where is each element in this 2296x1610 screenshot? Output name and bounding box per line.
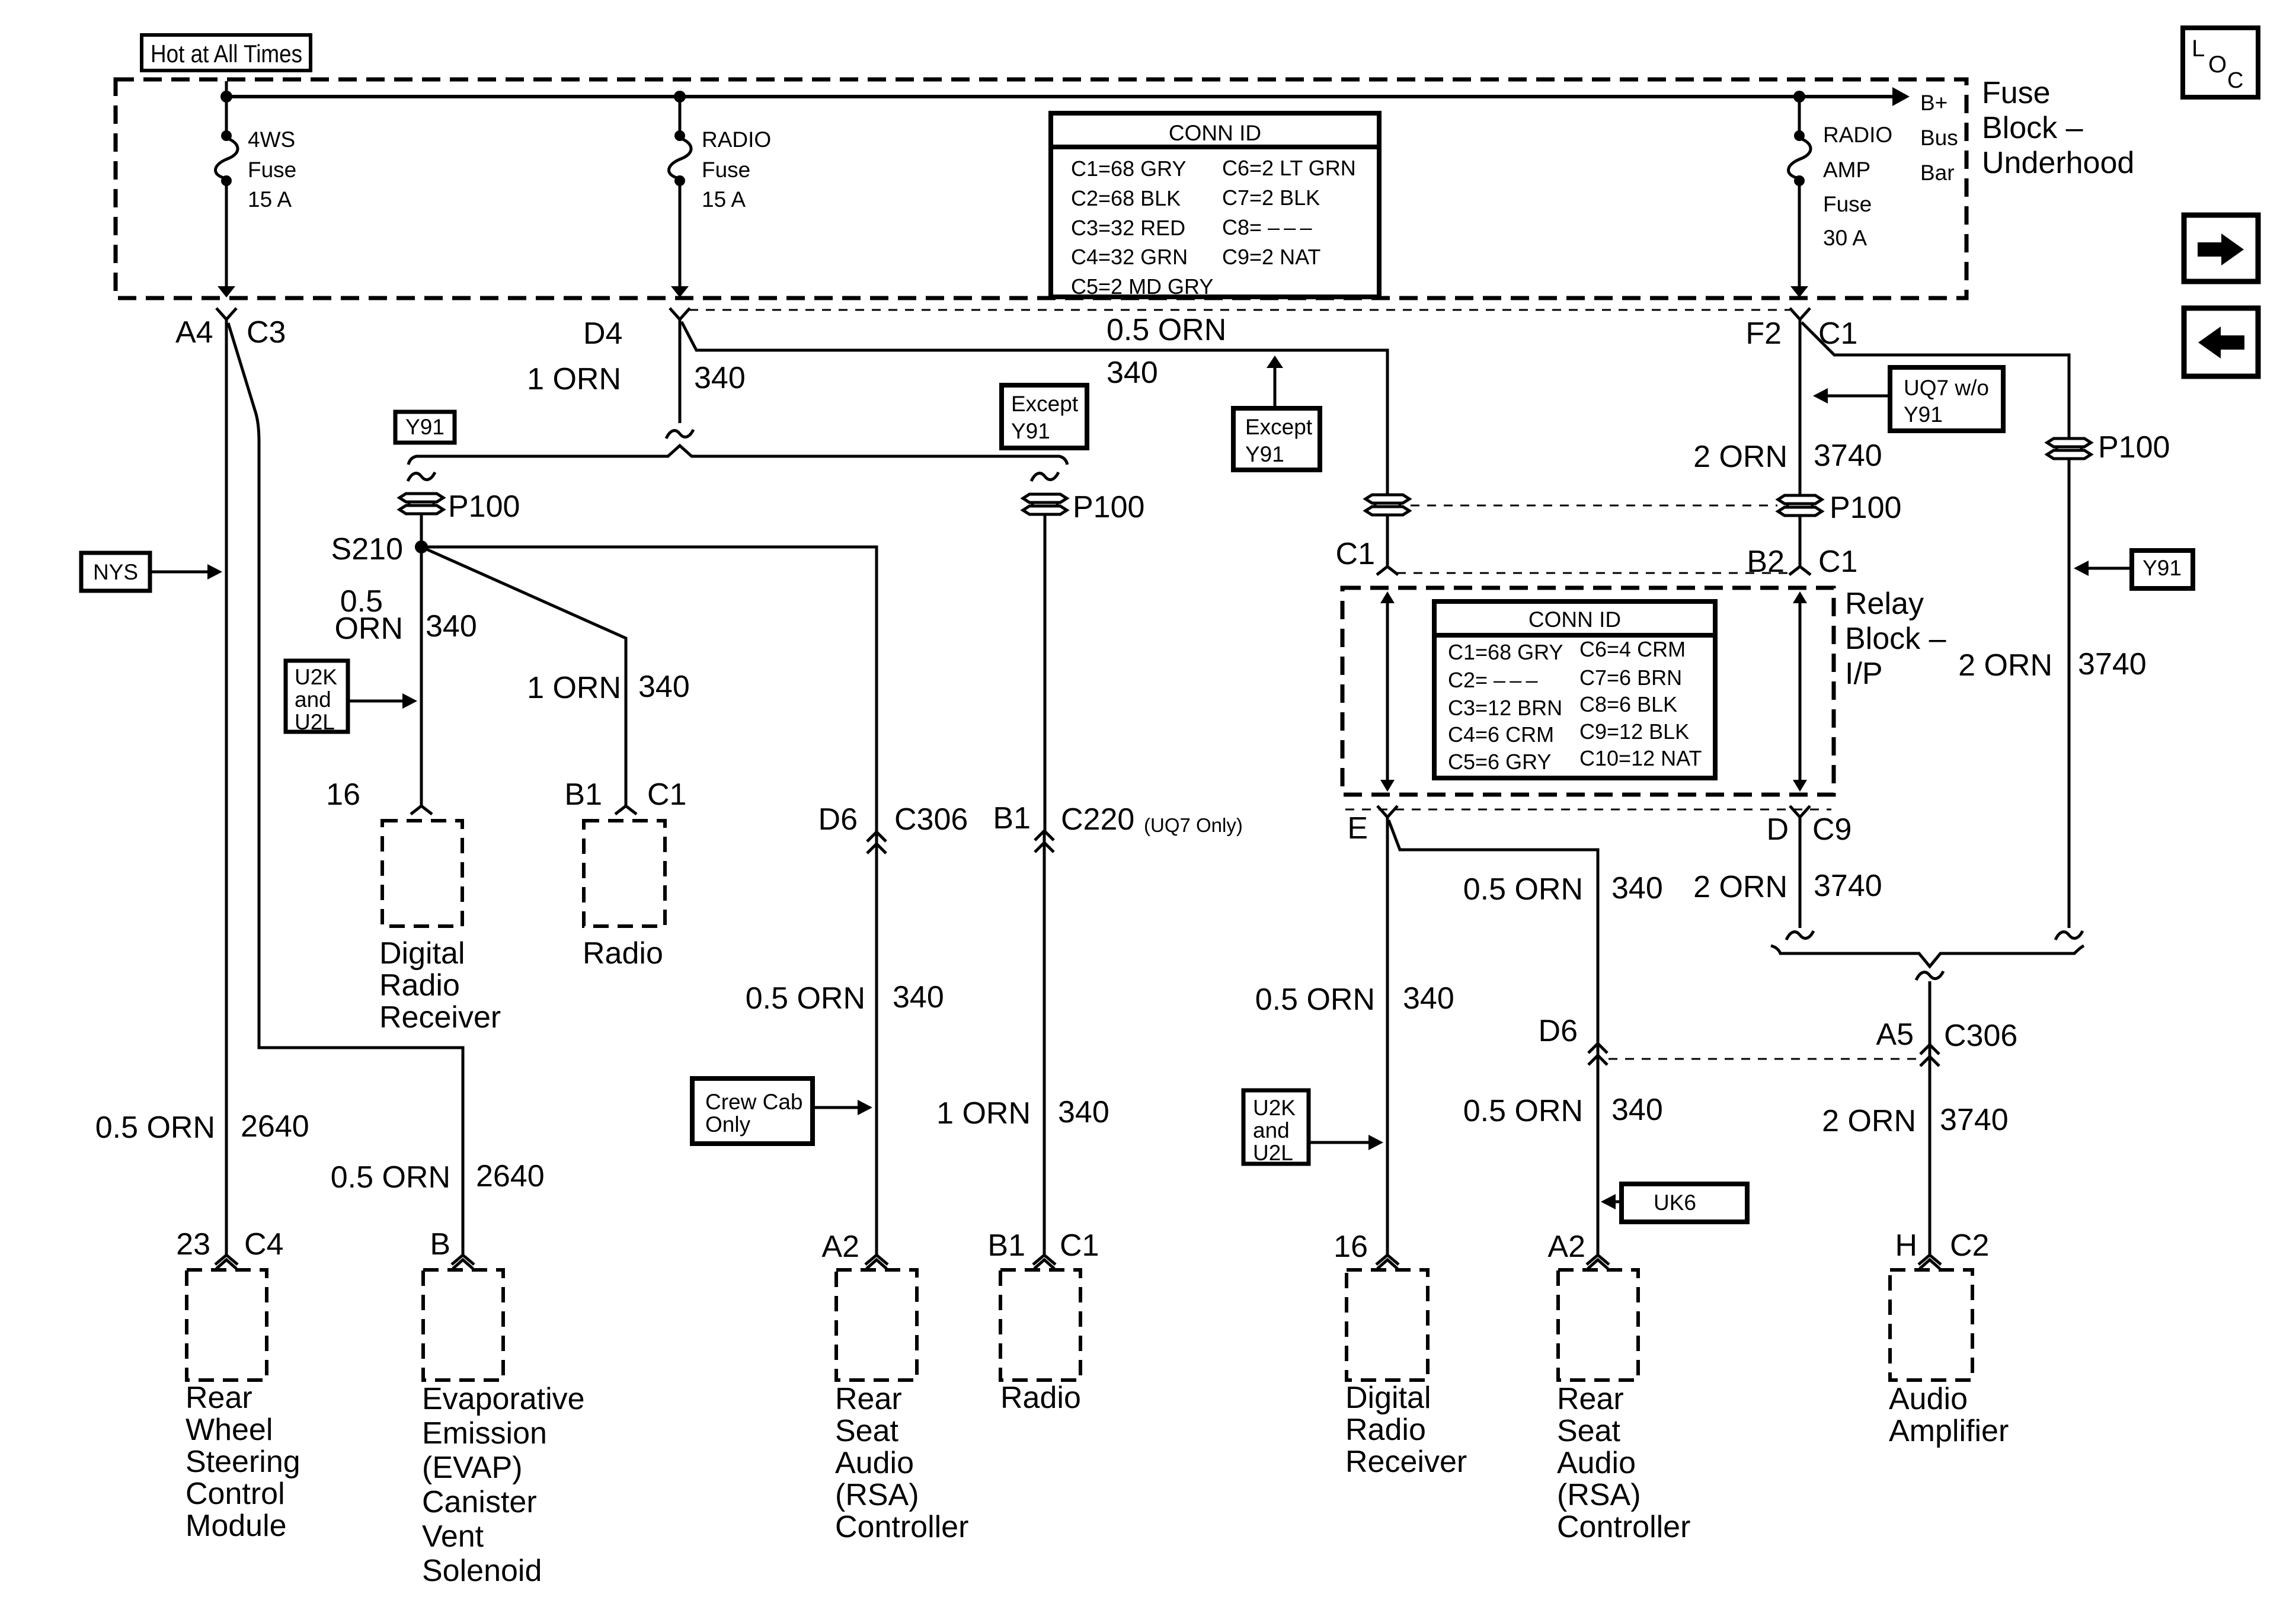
svg-text:2640: 2640 bbox=[241, 1109, 309, 1144]
label 0.5 / ORN | 340 (S210 wire) bbox=[334, 584, 477, 646]
svg-text:30 A: 30 A bbox=[1823, 226, 1867, 250]
svg-text:Crew Cab: Crew Cab bbox=[705, 1090, 803, 1114]
label "Hot at All Times" bbox=[142, 35, 311, 71]
svg-text:Fuse: Fuse bbox=[702, 158, 750, 182]
label Rear Wheel Steering Control Module bbox=[186, 1381, 300, 1543]
wire break tilde above P100 (Except Y91 path) bbox=[1031, 472, 1059, 481]
node: bus junction at RADIO fuse bbox=[674, 91, 686, 103]
svg-text:Y91: Y91 bbox=[405, 415, 445, 439]
connector notch upper Radio bbox=[615, 806, 637, 814]
inline connector P100 (amplifier path) bbox=[2047, 430, 2170, 465]
svg-text:3740: 3740 bbox=[2078, 647, 2147, 681]
component box Radio (lower) bbox=[1000, 1270, 1080, 1380]
svg-text:Solenoid: Solenoid bbox=[422, 1554, 542, 1588]
svg-text:C4=6 CRM: C4=6 CRM bbox=[1448, 722, 1554, 747]
svg-text:C3: C3 bbox=[247, 315, 286, 350]
connector C1 notch at F2 bbox=[1790, 308, 1810, 319]
legend left-arrow box bbox=[2184, 308, 2258, 376]
connector notch RSA controller (right) bbox=[1587, 1255, 1609, 1269]
svg-text:and: and bbox=[295, 687, 331, 712]
svg-text:Audio: Audio bbox=[1557, 1446, 1636, 1480]
wire break tilde (merged wire) bbox=[1916, 971, 1943, 980]
svg-text:Except: Except bbox=[1245, 415, 1313, 439]
svg-text:RADIO: RADIO bbox=[1823, 123, 1892, 147]
wire 1 ORN 340 from RADIO fuse bbox=[679, 319, 682, 423]
connector D4 notch bbox=[670, 308, 690, 319]
svg-text:Radio: Radio bbox=[1345, 1413, 1426, 1447]
label 1 ORN | 340 (D4 wire) bbox=[527, 361, 746, 396]
svg-text:Radio: Radio bbox=[583, 936, 663, 971]
svg-text:E: E bbox=[1347, 811, 1368, 846]
svg-text:C5=2 MD GRY: C5=2 MD GRY bbox=[1071, 274, 1213, 299]
svg-text:CONN ID: CONN ID bbox=[1169, 121, 1261, 145]
svg-text:C1: C1 bbox=[1060, 1228, 1099, 1263]
svg-text:C2= – – –: C2= – – – bbox=[1448, 668, 1538, 692]
svg-text:Hot at All Times: Hot at All Times bbox=[151, 40, 302, 68]
fuse "RADIO AMP Fuse 30 A" bbox=[1789, 97, 1811, 297]
svg-text:1 ORN: 1 ORN bbox=[527, 671, 621, 705]
svg-text:Relay: Relay bbox=[1845, 587, 1924, 621]
svg-text:U2K: U2K bbox=[1253, 1096, 1296, 1120]
svg-text:P100: P100 bbox=[448, 489, 520, 524]
svg-text:B+: B+ bbox=[1920, 91, 1948, 115]
svg-text:C2=68 BLK: C2=68 BLK bbox=[1071, 186, 1181, 210]
connector boundary dashed (D4 to F2) bbox=[689, 309, 1790, 311]
svg-text:Except: Except bbox=[1011, 392, 1079, 416]
component box Rear Seat Audio (RSA) Controller (right) bbox=[1558, 1270, 1638, 1380]
svg-text:Block –: Block – bbox=[1982, 111, 2083, 145]
connector notch EVAP solenoid bbox=[452, 1255, 474, 1269]
svg-text:Underhood: Underhood bbox=[1982, 146, 2134, 180]
svg-text:C1: C1 bbox=[1336, 537, 1375, 571]
svg-text:1 ORN: 1 ORN bbox=[936, 1096, 1031, 1131]
wire break tilde above P100 (Y91 path) bbox=[408, 472, 435, 481]
label 0.5 ORN | 340 (RSA lower wire) bbox=[1463, 871, 1663, 907]
connector notch B2 into relay block bbox=[1789, 566, 1811, 575]
svg-text:Receiver: Receiver bbox=[379, 1000, 501, 1035]
label B2 | C1 (relay block entry right) bbox=[1747, 545, 1857, 579]
wire F2 branch to audio amplifier path bbox=[1802, 322, 2069, 438]
svg-text:H: H bbox=[1895, 1228, 1917, 1263]
svg-text:C: C bbox=[2227, 68, 2243, 93]
svg-text:23: 23 bbox=[176, 1227, 210, 1262]
option flag U2K and U2L (right) bbox=[1243, 1090, 1383, 1165]
svg-text:0.5 ORN: 0.5 ORN bbox=[1107, 313, 1226, 347]
label D | C9 bbox=[1766, 812, 1851, 847]
svg-text:340: 340 bbox=[1403, 981, 1454, 1016]
svg-text:D6: D6 bbox=[1539, 1014, 1578, 1048]
svg-text:C1=68 GRY: C1=68 GRY bbox=[1448, 640, 1563, 664]
svg-text:340: 340 bbox=[638, 670, 690, 704]
option flag Y91 (bracket left) bbox=[395, 412, 455, 443]
svg-text:340: 340 bbox=[1058, 1095, 1109, 1129]
wire E jog to RSA controller (lower) bbox=[1389, 820, 1598, 1255]
connector notch Radio (lower) bbox=[1033, 1255, 1056, 1269]
svg-text:Fuse: Fuse bbox=[1982, 76, 2051, 110]
svg-text:C1=68 GRY: C1=68 GRY bbox=[1071, 156, 1186, 181]
svg-text:Audio: Audio bbox=[1889, 1382, 1968, 1416]
svg-text:B1: B1 bbox=[987, 1228, 1025, 1263]
svg-text:(UQ7 Only): (UQ7 Only) bbox=[1144, 814, 1243, 836]
label RADIO Fuse 15 A bbox=[702, 127, 771, 212]
svg-text:AMP: AMP bbox=[1823, 158, 1870, 182]
connector notch D out of relay block bbox=[1790, 806, 1810, 817]
wire P100 to S210 bbox=[420, 514, 423, 547]
svg-text:Receiver: Receiver bbox=[1345, 1445, 1467, 1479]
svg-text:C10=12 NAT: C10=12 NAT bbox=[1579, 746, 1702, 770]
svg-text:Block –: Block – bbox=[1845, 622, 1946, 656]
label 0.5 ORN | 340 (below D6 lower) bbox=[1463, 1093, 1663, 1128]
svg-text:Wheel: Wheel bbox=[186, 1413, 273, 1447]
svg-text:D6: D6 bbox=[818, 802, 858, 837]
svg-text:2 ORN: 2 ORN bbox=[1958, 648, 2052, 683]
inline connector P100 (Except Y91 path) bbox=[1023, 490, 1144, 524]
connector notch Rear Wheel Steering Control Module bbox=[215, 1255, 238, 1269]
svg-text:Emission: Emission bbox=[422, 1416, 547, 1451]
inline connector P100 (F2 wire) bbox=[1778, 491, 1901, 525]
svg-text:ORN: ORN bbox=[334, 612, 403, 646]
wire S210 to RSA controller (horizontal) bbox=[421, 547, 877, 1255]
svg-text:Y91: Y91 bbox=[2142, 556, 2182, 580]
svg-text:C5=6 GRY: C5=6 GRY bbox=[1448, 750, 1551, 774]
svg-text:(RSA): (RSA) bbox=[1557, 1478, 1641, 1512]
option flag Crew Cab Only bbox=[692, 1078, 872, 1144]
label 4WS Fuse 15 A bbox=[248, 127, 296, 212]
svg-text:A2: A2 bbox=[1547, 1230, 1585, 1264]
connector boundary dashed (D6 to A5) bbox=[1609, 1058, 1920, 1060]
legend right-arrow box bbox=[2184, 215, 2258, 281]
svg-text:Vent: Vent bbox=[422, 1519, 484, 1554]
connector notch E out of relay block bbox=[1377, 806, 1398, 817]
wire break tilde (D wire) bbox=[1786, 931, 1814, 940]
wire 0.5 ORN 340 horizontal from D4 bbox=[682, 322, 1387, 495]
label RADIO AMP Fuse 30 A bbox=[1823, 123, 1892, 250]
svg-text:B: B bbox=[430, 1227, 450, 1262]
label Rear Seat Audio (RSA) Controller (right) bbox=[1557, 1382, 1690, 1544]
svg-text:Y91: Y91 bbox=[1011, 419, 1050, 443]
svg-text:2640: 2640 bbox=[476, 1159, 545, 1193]
svg-text:C7=2 BLK: C7=2 BLK bbox=[1222, 185, 1320, 210]
harness dashed link P100-P100 bbox=[1411, 505, 1777, 507]
label Rear Seat Audio (RSA) Controller (left) bbox=[835, 1382, 968, 1544]
wire F2 2 ORN 3740 down to relay block bbox=[1799, 319, 1802, 495]
connector notch Audio Amplifier bbox=[1918, 1255, 1941, 1269]
label Audio Amplifier bbox=[1889, 1382, 2009, 1448]
svg-text:3740: 3740 bbox=[1814, 438, 1882, 473]
wire C3 branch 0.5 ORN 2640 (to EVAP solenoid) bbox=[228, 323, 463, 1255]
option flag Except Y91 (bracket right) bbox=[1002, 385, 1087, 448]
connector notch RSA controller (left) bbox=[865, 1255, 888, 1269]
svg-text:P100: P100 bbox=[1073, 490, 1144, 524]
svg-text:Rear: Rear bbox=[186, 1381, 252, 1415]
svg-text:Audio: Audio bbox=[835, 1446, 914, 1480]
Fuse Block - Underhood dashed boundary bbox=[116, 79, 1966, 298]
svg-text:I/P: I/P bbox=[1845, 657, 1883, 691]
component box EVAP canister vent solenoid bbox=[423, 1270, 503, 1380]
svg-text:Radio: Radio bbox=[379, 968, 460, 1003]
wire into relay block at C1 bbox=[1386, 515, 1389, 566]
svg-text:Bar: Bar bbox=[1920, 161, 1955, 185]
svg-text:C4: C4 bbox=[244, 1227, 283, 1262]
label 0.5 ORN | 2640 (A4 wire) bbox=[95, 1109, 309, 1145]
svg-text:Digital: Digital bbox=[379, 936, 465, 971]
svg-text:Controller: Controller bbox=[1557, 1510, 1690, 1544]
svg-text:15 A: 15 A bbox=[702, 187, 746, 212]
svg-text:Y91: Y91 bbox=[1245, 442, 1284, 466]
svg-text:U2L: U2L bbox=[295, 710, 335, 734]
inline connector P100 (0.5 ORN into relay block) bbox=[1366, 495, 1409, 515]
option flag U2K and U2L (left) bbox=[286, 661, 417, 734]
svg-text:C8=6 BLK: C8=6 BLK bbox=[1579, 692, 1677, 716]
CONN ID table (fuse block) bbox=[1051, 113, 1379, 299]
svg-text:C220: C220 bbox=[1061, 802, 1134, 837]
component box Audio Amplifier bbox=[1890, 1270, 1972, 1380]
svg-text:15 A: 15 A bbox=[248, 187, 292, 212]
svg-text:0.5 ORN: 0.5 ORN bbox=[1255, 982, 1375, 1017]
svg-text:Evaporative: Evaporative bbox=[422, 1382, 585, 1416]
svg-text:(RSA): (RSA) bbox=[835, 1478, 919, 1512]
label 0.5 ORN | 2640 (C3 branch) bbox=[331, 1159, 545, 1195]
component box Rear Wheel Steering Control Module bbox=[187, 1270, 267, 1380]
svg-text:Controller: Controller bbox=[835, 1510, 968, 1544]
wire S210 diagonal to Radio B1 bbox=[421, 547, 626, 806]
connector notch Digital Radio Receiver (lower) bbox=[1376, 1255, 1399, 1269]
label 1 ORN | 340 (Radio wire) bbox=[936, 1095, 1109, 1131]
wire D down to merge brace bbox=[1799, 817, 1802, 928]
svg-text:0.5 ORN: 0.5 ORN bbox=[1463, 1094, 1583, 1128]
legend LOC box bbox=[2183, 28, 2258, 97]
svg-text:0.5 ORN: 0.5 ORN bbox=[331, 1160, 450, 1195]
label B1 | C1 (upper Radio) bbox=[564, 777, 686, 812]
svg-text:O: O bbox=[2208, 52, 2227, 78]
svg-text:C8= – – –: C8= – – – bbox=[1222, 215, 1312, 239]
svg-text:C9: C9 bbox=[1812, 812, 1851, 847]
svg-text:C3=12 BRN: C3=12 BRN bbox=[1448, 696, 1562, 720]
svg-text:B1: B1 bbox=[993, 801, 1031, 836]
svg-text:340: 340 bbox=[1611, 871, 1663, 905]
connector boundary dashed (C1 to B2) bbox=[1397, 572, 1790, 574]
option flag UK6 bbox=[1601, 1184, 1747, 1222]
svg-text:CONN ID: CONN ID bbox=[1528, 607, 1621, 632]
svg-text:(EVAP): (EVAP) bbox=[422, 1451, 523, 1485]
svg-text:B1: B1 bbox=[564, 777, 602, 812]
label B1 | C1 (lower Radio) bbox=[987, 1228, 1099, 1263]
wire E down to Digital Radio Receiver (lower) bbox=[1386, 817, 1389, 1255]
connector boundary dashed (relay block bottom) bbox=[1345, 809, 1831, 811]
svg-text:NYS: NYS bbox=[93, 560, 138, 584]
svg-text:C2: C2 bbox=[1950, 1228, 1989, 1263]
label Evaporative Emission (EVAP) Canister Vent Solenoid bbox=[422, 1382, 585, 1588]
wire break tilde above Y91 bracket bbox=[666, 430, 693, 438]
svg-text:340: 340 bbox=[1107, 356, 1158, 390]
label 2 ORN | 3740 (D wire) bbox=[1693, 869, 1882, 904]
B+ bus bar wire bbox=[226, 81, 1910, 106]
svg-text:3740: 3740 bbox=[1940, 1103, 2009, 1137]
svg-text:Bus: Bus bbox=[1920, 126, 1958, 150]
wire merged 2 ORN 3740 to audio amplifier bbox=[1929, 981, 1932, 1255]
component box Rear Seat Audio (RSA) Controller (left) bbox=[836, 1270, 917, 1380]
svg-text:Digital: Digital bbox=[1345, 1381, 1431, 1415]
svg-text:Radio: Radio bbox=[1000, 1381, 1081, 1415]
wire through relay block (C1 to E) bbox=[1380, 591, 1395, 792]
label H | C2 bbox=[1895, 1228, 1989, 1263]
svg-text:C1: C1 bbox=[1818, 545, 1857, 579]
svg-text:C1: C1 bbox=[647, 777, 686, 812]
svg-text:Only: Only bbox=[705, 1112, 751, 1137]
svg-text:340: 340 bbox=[1611, 1093, 1663, 1127]
component box Digital Radio Receiver (lower) bbox=[1347, 1270, 1428, 1380]
svg-text:1 ORN: 1 ORN bbox=[527, 362, 621, 396]
label Digital Radio Receiver (upper) bbox=[379, 936, 501, 1035]
label Fuse Block - Underhood bbox=[1982, 76, 2134, 180]
wire P100 down to Radio bbox=[1044, 514, 1047, 831]
label 0.5 ORN | 340 (RSA wire below C306) bbox=[746, 980, 944, 1016]
svg-text:16: 16 bbox=[326, 777, 360, 812]
label Digital Radio Receiver (lower) bbox=[1345, 1381, 1467, 1479]
connector notch Digital Radio Receiver (upper) bbox=[411, 806, 432, 814]
svg-text:C3=32 RED: C3=32 RED bbox=[1071, 216, 1185, 240]
svg-text:L: L bbox=[2192, 36, 2205, 62]
svg-text:D4: D4 bbox=[583, 316, 622, 351]
svg-text:A5: A5 bbox=[1876, 1017, 1914, 1052]
fuse "4WS Fuse 15 A" bbox=[216, 97, 238, 297]
label 23 | C4 bbox=[176, 1227, 283, 1262]
wire A4 0.5 ORN 2640 (to RWS module) bbox=[225, 319, 228, 1255]
label 0.5 ORN | 340 (E wire) bbox=[1255, 981, 1454, 1017]
svg-text:340: 340 bbox=[694, 361, 746, 395]
inline connector P100 (Y91 path) bbox=[399, 489, 520, 524]
node: bus junction at 4WS fuse bbox=[220, 91, 232, 103]
wire P100 down to merge brace bbox=[2068, 459, 2071, 928]
svg-text:Rear: Rear bbox=[1557, 1382, 1624, 1416]
svg-text:0.5 ORN: 0.5 ORN bbox=[1463, 872, 1583, 907]
node: bus junction at RADIO AMP fuse bbox=[1793, 91, 1805, 103]
option flag Y91 (right) bbox=[2074, 550, 2193, 588]
svg-text:0.5 ORN: 0.5 ORN bbox=[746, 981, 865, 1016]
svg-text:Amplifier: Amplifier bbox=[1889, 1414, 2009, 1448]
svg-text:Y91: Y91 bbox=[1904, 402, 1943, 427]
label 2 ORN | 3740 (amplifier wire) bbox=[1822, 1103, 2009, 1138]
Relay Block - I/P dashed boundary bbox=[1342, 588, 1834, 795]
svg-text:Control: Control bbox=[186, 1477, 285, 1511]
svg-text:C6=4 CRM: C6=4 CRM bbox=[1579, 637, 1686, 661]
svg-text:D: D bbox=[1766, 812, 1789, 847]
label 2 ORN | 3740 (amplifier path) bbox=[1958, 647, 2147, 683]
svg-text:C7=6 BRN: C7=6 BRN bbox=[1579, 665, 1682, 690]
svg-text:4WS: 4WS bbox=[248, 127, 295, 152]
svg-text:Module: Module bbox=[186, 1509, 287, 1543]
svg-text:2 ORN: 2 ORN bbox=[1693, 440, 1787, 474]
merge brace (D + amplifier path) bbox=[1771, 946, 2084, 966]
svg-text:C4=32 GRN: C4=32 GRN bbox=[1071, 245, 1188, 269]
svg-text:3740: 3740 bbox=[1814, 869, 1882, 903]
svg-text:0.5 ORN: 0.5 ORN bbox=[95, 1110, 215, 1145]
CONN ID table (relay block) bbox=[1434, 601, 1715, 778]
fuse "RADIO Fuse 15 A" bbox=[669, 97, 692, 297]
option flag NYS bbox=[81, 553, 222, 591]
svg-text:Fuse: Fuse bbox=[248, 158, 296, 182]
option flag Except Y91 (up arrow) bbox=[1233, 356, 1320, 470]
label Relay Block - I/P bbox=[1845, 587, 1946, 691]
connector C306 D6 (RSA pass-through) bbox=[818, 802, 968, 853]
svg-text:340: 340 bbox=[426, 609, 477, 644]
Y91 split bracket bbox=[408, 446, 1067, 465]
svg-text:C6=2 LT GRN: C6=2 LT GRN bbox=[1222, 156, 1356, 180]
connector C306 D6 (RSA lower pass-through) bbox=[1539, 1014, 1607, 1065]
svg-text:UQ7 w/o: UQ7 w/o bbox=[1904, 376, 1989, 400]
svg-text:Fuse: Fuse bbox=[1823, 192, 1872, 216]
component box Radio (upper) bbox=[584, 821, 665, 926]
connector notch C1 into relay block bbox=[1377, 566, 1398, 575]
label 1 ORN | 340 (Radio B1 wire) bbox=[527, 670, 690, 705]
option flag UQ7 w/o Y91 bbox=[1813, 367, 2003, 431]
svg-text:B2: B2 bbox=[1747, 545, 1785, 579]
svg-text:Seat: Seat bbox=[1557, 1414, 1621, 1448]
connector C220 B1 (Radio pass-through) bbox=[993, 801, 1242, 852]
svg-text:S210: S210 bbox=[331, 532, 403, 566]
splice S210 bbox=[331, 532, 428, 566]
svg-text:RADIO: RADIO bbox=[702, 127, 771, 152]
svg-text:U2L: U2L bbox=[1253, 1141, 1293, 1165]
label 2 ORN | 3740 (F2 wire) bbox=[1693, 438, 1882, 474]
wire through relay block (B2 to D) bbox=[1793, 591, 1807, 792]
wire S210 down to Digital Radio Receiver bbox=[420, 547, 423, 806]
svg-text:Canister: Canister bbox=[422, 1485, 537, 1519]
connector C306 A5 (amplifier pass-through) bbox=[1876, 1017, 2017, 1066]
label F2 | C1 bbox=[1745, 316, 1857, 351]
svg-text:340: 340 bbox=[893, 980, 944, 1014]
label B+ Bus Bar bbox=[1920, 91, 1958, 185]
svg-text:2 ORN: 2 ORN bbox=[1693, 870, 1787, 904]
svg-text:and: and bbox=[1253, 1118, 1290, 1142]
svg-text:P100: P100 bbox=[2098, 430, 2170, 465]
connector C3 notch at A4 bbox=[216, 308, 236, 319]
svg-text:F2: F2 bbox=[1745, 316, 1782, 351]
svg-text:C306: C306 bbox=[894, 802, 968, 837]
wire break tilde (amplifier path) bbox=[2055, 931, 2083, 940]
svg-text:U2K: U2K bbox=[295, 665, 337, 689]
component box Digital Radio Receiver (upper) bbox=[382, 821, 462, 926]
svg-text:C9=2 NAT: C9=2 NAT bbox=[1222, 245, 1320, 269]
svg-text:A2: A2 bbox=[821, 1230, 859, 1264]
svg-text:Rear: Rear bbox=[835, 1382, 902, 1416]
svg-text:Seat: Seat bbox=[835, 1414, 899, 1448]
svg-text:A4: A4 bbox=[175, 315, 213, 350]
svg-text:16: 16 bbox=[1334, 1230, 1368, 1264]
svg-text:C306: C306 bbox=[1944, 1019, 2017, 1053]
svg-text:C9=12 BLK: C9=12 BLK bbox=[1579, 719, 1689, 744]
svg-text:Steering: Steering bbox=[186, 1445, 300, 1479]
svg-text:2 ORN: 2 ORN bbox=[1822, 1104, 1916, 1138]
svg-text:P100: P100 bbox=[1830, 491, 1901, 525]
svg-text:UK6: UK6 bbox=[1654, 1190, 1696, 1215]
label A4 / C3 bbox=[175, 315, 286, 350]
